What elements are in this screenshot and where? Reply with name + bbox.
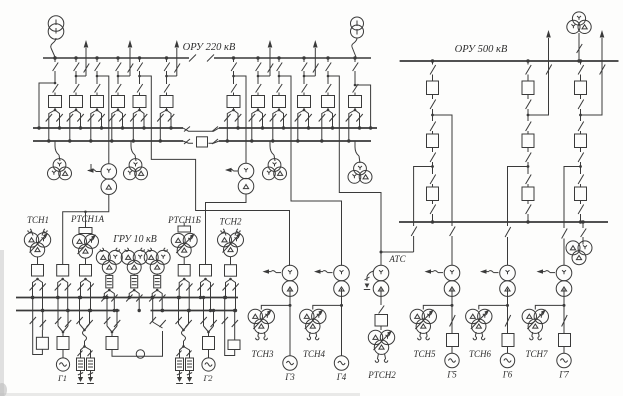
220 kV bay 1: disconnectors and circuit breaker: [53, 56, 56, 59]
breaker of РТСН1Б: [178, 265, 190, 277]
node at LV side of T6 (generator G6, 500 kV): [507, 289, 509, 306]
bus section B: voltage transformer and surge arresters bay: [177, 296, 180, 299]
wire: bay 5 down to unit transformer T3 of generator Г3: [138, 75, 141, 78]
wire: string 2 lower tap to unit transformer T6: [508, 167, 529, 227]
generator Г3: [283, 356, 297, 370]
open reserve leads of ТСН4: [308, 332, 311, 337]
line W5: [314, 48, 316, 76]
ground of arrester 1, section A: [80, 371, 82, 378]
wire: bay 9 down to unit transformer T4 of generator Г4: [278, 75, 281, 78]
disconnectors of РТСН1А to ГРУ buses: [84, 278, 87, 281]
svg-text:Г4: Г4: [336, 372, 347, 382]
svg-text:ТСН3: ТСН3: [251, 349, 274, 359]
node at LV side of T4 (generator G4, 220 kV): [341, 289, 343, 306]
own-needs transformer ТСН1: [28, 229, 31, 232]
generator breaker of Г5: [447, 334, 459, 347]
generator breaker of Г7: [559, 334, 571, 347]
svg-text:РТСН1А: РТСН1А: [70, 214, 105, 224]
svg-text:ТСН1: ТСН1: [27, 215, 49, 225]
breaker on T2 LV feeder: [200, 265, 212, 277]
220 kV bay 4: disconnectors and circuit breaker: [116, 56, 119, 59]
voltage transformer TV2 on 220 kV bus (right end): [351, 17, 364, 30]
bus voltage transformer TV4 on main bus 2: [130, 141, 132, 146]
wire: string 3 lower tap to unit transformer T7: [564, 167, 581, 229]
500 kV breaker string 2 (three breakers): [526, 59, 529, 62]
breaker of РТСН2: [375, 315, 388, 327]
own-needs transformer ТСН6: [479, 305, 508, 309]
unit transformer T7 (generator G7, 500 kV): [556, 265, 572, 281]
tertiary arrow of T4 (generator G4, 220 kV): [328, 272, 333, 274]
unit transformer T6 (generator G6, 500 kV): [500, 265, 516, 281]
open reserve leads of ТСН3: [257, 332, 260, 337]
svg-text:РТСН1Б: РТСН1Б: [167, 215, 202, 225]
220 kV main bus 2 (lower), with bus-tie breaker: [33, 140, 183, 142]
line W4: [269, 48, 271, 76]
220 kV main bus 1 (upper), with section jog: [33, 127, 183, 129]
disconnector on АТС feeder below 500 kV lower bus: [411, 227, 417, 237]
sectionalizing reactor between ГРУ sections: [112, 331, 163, 356]
wire: bay 2 to line W1: [75, 75, 78, 78]
220 kV bay 7: disconnectors and circuit breaker: [232, 56, 235, 59]
svg-text:Г6: Г6: [502, 370, 513, 380]
220 kV bay 3: disconnectors and circuit breaker: [95, 56, 98, 59]
wire: bay 7 down to transformer T2: [232, 75, 235, 78]
generator Г1: [62, 350, 64, 359]
generator Г1 feeder: disconnectors and breaker: [56, 296, 59, 299]
tertiary arrow of T5 (generator G5, 500 kV): [438, 272, 443, 274]
generator Г2: [208, 350, 210, 359]
line W1: [85, 48, 87, 76]
bus sectionalizing bay disconnectors (section B side): [151, 296, 154, 299]
surge arrester 1 of section B: [176, 358, 184, 371]
section disconnector ticks on main bus 1: [184, 127, 190, 132]
bus voltage transformer TV6 on main bus 2 (right end): [354, 141, 356, 147]
reserve own-needs transformer РТСН2 feeder: [380, 289, 382, 305]
voltage transformer TV8 on 500 kV lower bus: [581, 220, 584, 223]
svg-text:ТСН7: ТСН7: [525, 349, 548, 359]
disconnectors of ГРУ ТСН feeder 3: [156, 289, 159, 292]
own-needs transformer ТСН7: [535, 305, 564, 309]
open reserve leads of ТСН7: [531, 332, 534, 337]
220 kV bay 2: disconnectors and circuit breaker: [74, 56, 77, 59]
disconnectors of ГРУ ТСН feeder 2: [133, 289, 136, 292]
voltage transformer TV7 on 500 kV bus (top right): [572, 12, 585, 25]
bus ОРУ 500 кВ (upper): [400, 60, 619, 62]
220 kV bay 6: disconnectors and circuit breaker: [165, 56, 168, 59]
section disconnector ticks on main bus 2: [184, 139, 190, 144]
svg-text:РТСН2: РТСН2: [367, 370, 396, 380]
bus ОРУ 500 кВ (lower): [399, 221, 608, 223]
breaker of ТСН1: [32, 265, 44, 277]
svg-text:Г5: Г5: [446, 370, 457, 380]
disconnector on T7 feeder below 500 kV lower bus: [562, 229, 568, 239]
bus sectionalizing gap ticks on ОРУ 220 bus: [189, 55, 196, 62]
open reserve leads of ТСН5: [419, 332, 422, 337]
generator disconnector of Г7: [562, 315, 568, 327]
transformer T1 (unit transformer of ГРУ section 1): [101, 164, 117, 180]
ГРУ ТСН feeder 1: transformer with reactor: [100, 248, 103, 251]
wire: string 1 lower tap to autotransformer АТС (500 kV side): [414, 167, 433, 227]
unit transformer T3 (generator G3, 220 kV): [282, 265, 298, 281]
surge arrester 2 of section A: [87, 358, 95, 371]
wire to generator Г3: [289, 305, 291, 355]
disconnectors of ТСН2 to ГРУ buses: [229, 278, 232, 281]
surge arrester 1 of section A: [77, 358, 85, 371]
generator disconnector of Г5: [450, 315, 456, 327]
wire: transformer T1 LV lead into ГРУ section A: [63, 195, 109, 265]
reserve own-needs transformer РТСН2: [368, 330, 382, 344]
generator Г2 feeder: disconnectors and breaker: [202, 296, 205, 299]
bus ОРУ 220 кВ (bypass bus), left segment: [43, 57, 189, 59]
bus voltage transformer TV3 on main bus 2: [54, 141, 56, 146]
wire: bay 12 link to main bus 1 right end: [354, 84, 357, 87]
svg-text:ТСН5: ТСН5: [413, 349, 436, 359]
220 kV bay 12: disconnectors and circuit breaker: [353, 56, 356, 59]
disconnectors of РТСН1Б to ГРУ buses: [183, 278, 186, 281]
ГРУ reserve feeder with breaker (section B, loop): [223, 296, 226, 299]
tertiary arrow of transformer T2: [234, 170, 239, 172]
disconnector on T5 feeder below 500 kV lower bus: [451, 222, 453, 226]
tertiary arrow of T3 (generator G3, 220 kV): [276, 272, 281, 274]
ГРУ 10 kV bus 2 (lower), section B: [151, 310, 237, 312]
wire: string 1 upper tap to unit transformer T5: [433, 115, 453, 219]
svg-text:ОРУ 220 кВ: ОРУ 220 кВ: [183, 42, 236, 53]
page shading (scan artifact): [0, 250, 4, 396]
ГРУ reserve feeder with breaker (section A, loop): [31, 296, 34, 299]
svg-text:Г7: Г7: [558, 370, 569, 380]
wire: bay 8 to line W4: [257, 75, 260, 78]
generator Г7: [557, 353, 571, 367]
generator Г5: [445, 353, 459, 367]
bus-tie breaker on main bus 2: [197, 137, 208, 147]
surge arrester and ground at АТС: [367, 271, 374, 277]
220 kV bay 8: disconnectors and circuit breaker: [256, 56, 259, 59]
svg-text:ТСН2: ТСН2: [219, 217, 242, 227]
disconnectors of T1 feeder to ГРУ buses: [61, 278, 64, 281]
own-needs transformer ТСН5: [423, 305, 452, 309]
tertiary arrow of T6 (generator G6, 500 kV): [494, 272, 499, 274]
disconnector on T6 feeder below 500 kV lower bus: [505, 227, 511, 237]
open reserve link of РТСН1Б: [183, 223, 185, 227]
ГРУ 10 kV bus 1 (upper): [16, 297, 238, 299]
wire: bay 4 to line W2: [117, 75, 120, 78]
generator Г6: [500, 353, 514, 367]
220 kV bay 5: disconnectors and circuit breaker: [138, 56, 141, 59]
node at LV side of T7 (generator G7, 500 kV): [563, 289, 565, 306]
reserve own-needs transformer РТСН1Б: [171, 233, 185, 247]
own-needs transformer ТСН4: [313, 305, 342, 309]
500 kV breaker string 1 (three breakers): [431, 59, 434, 62]
generator breaker of Г6: [502, 334, 514, 347]
ground of arrester 2, section A: [90, 371, 92, 378]
svg-text:ГРУ 10 кВ: ГРУ 10 кВ: [112, 234, 157, 245]
generator disconnector of Г6: [505, 315, 511, 327]
node at LV side of T5 (generator G5, 500 kV): [451, 289, 453, 306]
svg-text:Г3: Г3: [284, 372, 295, 382]
surge arrester 2 of section B: [186, 358, 194, 371]
bus sectionalizing bay with breaker (section A side): [105, 296, 108, 299]
ГРУ ТСН feeder 2: transformer with reactor: [125, 248, 128, 251]
wire: bay 3 down to transformer T1: [96, 75, 99, 78]
breaker of ТСН2: [225, 265, 237, 277]
voltage transformer TV1 on 220 kV bus (top-left): [48, 16, 64, 32]
wire: bay 10 to line W5: [303, 75, 306, 78]
disconnectors of T2 feeder to ГРУ buses: [204, 278, 207, 281]
own-needs transformer ТСН3: [261, 305, 290, 309]
wire: transformer T2 LV lead into ГРУ section B: [206, 194, 247, 265]
220 kV bay 10: disconnectors and circuit breaker: [302, 56, 305, 59]
500 kV breaker string 3 (three breakers): [579, 59, 582, 62]
wire: bay 11 down to autotransformer АТС (220 kV side): [327, 75, 330, 78]
node: АТС high-voltage lead junction: [381, 251, 414, 253]
ground of arrester 2, section B: [189, 371, 191, 378]
reactor of ГРУ ТСН feeder 3: [154, 275, 161, 288]
unit transformer T4 (generator G4, 220 kV): [334, 265, 350, 281]
reserve own-needs transformer РТСН1А: [84, 211, 87, 214]
open reserve leads of РТСН2: [377, 354, 378, 360]
own-needs transformer ТСН2: [221, 229, 224, 232]
svg-text:Г1: Г1: [57, 373, 67, 383]
overhead line W5 with arrow (500 kV) from string 2 upper tap: [528, 38, 549, 115]
disconnectors of ГРУ ТСН feeder 1: [108, 289, 111, 292]
svg-text:ТСН6: ТСН6: [469, 349, 492, 359]
ГРУ 10 kV bus 2 (lower), section A: [16, 310, 120, 312]
tertiary arrow of transformer T1: [96, 171, 101, 173]
disconnectors of ТСН1 to ГРУ buses: [36, 278, 39, 281]
generator Г4: [334, 356, 348, 370]
svg-text:ОРУ 500 кВ: ОРУ 500 кВ: [455, 44, 508, 55]
tertiary arrow of T7 (generator G7, 500 kV): [550, 272, 555, 274]
overhead line W6 with arrow (500 kV) from string 3 upper tap: [581, 38, 603, 115]
node at LV side of T3 (generator G3, 220 kV): [289, 289, 291, 306]
transformer T2 (unit transformer of ГРУ section 2): [238, 163, 254, 179]
220 kV bay 11: disconnectors and circuit breaker: [326, 56, 329, 59]
ground of arrester 1, section B: [179, 371, 181, 378]
220 kV bay 9: disconnectors and circuit breaker: [277, 56, 280, 59]
reactor of ГРУ ТСН feeder 2: [131, 275, 138, 288]
ГРУ ТСН feeder 3: transformer with reactor: [148, 248, 151, 251]
svg-text:Г2: Г2: [202, 373, 213, 383]
bus ОРУ 220 кВ, right segment: [214, 57, 371, 59]
svg-text:АТС: АТС: [388, 254, 406, 264]
breaker of РТСН1А: [80, 265, 92, 277]
reactor of ГРУ ТСН feeder 1: [106, 275, 113, 288]
svg-text:ТСН4: ТСН4: [303, 349, 326, 359]
wire: bay 6 to line W3: [165, 75, 168, 78]
bus voltage transformer TV5 on main bus 2: [269, 141, 271, 146]
bus section A: voltage transformer and surge arresters bay: [78, 296, 81, 299]
autotransformer АТС (500/220 kV): [373, 265, 389, 281]
wire: bay 1 link to main bus 1 left end: [54, 82, 57, 85]
unit transformer T5 (generator G5, 500 kV): [444, 265, 460, 281]
open reserve leads of ТСН6: [474, 332, 477, 337]
line W3: [176, 48, 178, 76]
wire to generator Г4: [341, 305, 343, 355]
line W2: [129, 48, 131, 76]
breaker on T1 LV feeder: [57, 265, 69, 277]
